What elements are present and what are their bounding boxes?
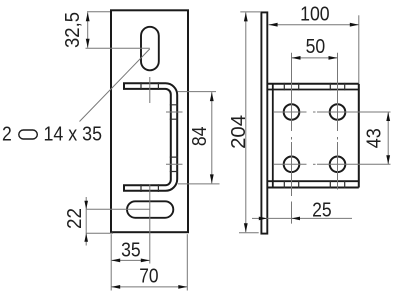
leader line to slot <box>80 49 150 122</box>
left view plate outline <box>111 10 188 232</box>
hole bottom-left <box>284 157 300 173</box>
hole bottom-right <box>330 157 346 173</box>
dim 22 extension lines <box>86 208 150 210</box>
hole centerline upper <box>166 111 183 113</box>
vertical slot 14x35 <box>141 27 159 71</box>
dim 204 extension lines <box>240 11 261 13</box>
svg-text:14 x 35: 14 x 35 <box>44 124 103 146</box>
dim 32,5 line <box>87 12 89 48</box>
dim 32,5 extension lines <box>87 11 110 13</box>
svg-text:50: 50 <box>306 36 326 58</box>
dim 22 line with outside arrows <box>85 209 87 233</box>
obround symbol <box>19 130 38 139</box>
C channel profile <box>124 83 177 191</box>
vertical centerline right hole column <box>337 53 339 190</box>
dim 25 line segments <box>252 217 267 219</box>
bend tangent line <box>272 84 274 188</box>
dim 43 line <box>387 112 389 164</box>
svg-text:25: 25 <box>312 199 332 221</box>
dim 70 extension lines <box>110 234 112 290</box>
dim 70 line <box>111 286 187 288</box>
dim 204 line <box>245 12 247 232</box>
hole edge ticks bottom band <box>284 180 344 188</box>
horizontal slot 14x35 <box>127 201 173 218</box>
horizontal centerline bottom hole row <box>274 163 391 165</box>
svg-text:43: 43 <box>364 128 386 148</box>
svg-text:70: 70 <box>139 266 158 288</box>
right view channel web outline <box>267 83 359 85</box>
hole edge ticks on channel web lower <box>170 157 178 171</box>
right view upright plate edge-on <box>261 12 267 233</box>
dim 25 outside arrows <box>259 217 268 221</box>
svg-text:204: 204 <box>228 115 250 149</box>
hole top-right <box>330 104 346 120</box>
dim 100 extension line <box>358 15 360 83</box>
svg-text:35: 35 <box>121 239 141 261</box>
svg-text:100: 100 <box>300 4 330 26</box>
slot centerline through bottom band down to 35-dim <box>149 184 151 263</box>
slot centerline through top band <box>149 77 151 103</box>
svg-text:84: 84 <box>189 127 211 147</box>
dim 35 line <box>111 259 150 261</box>
dim 100 line <box>269 24 359 26</box>
dim 84 line <box>211 92 213 183</box>
svg-text:22: 22 <box>64 208 86 229</box>
svg-text:32,5: 32,5 <box>62 12 84 48</box>
dim 84 extension lines <box>178 91 217 93</box>
slot edge ticks on bottom band <box>141 184 158 192</box>
svg-text:2: 2 <box>2 124 12 146</box>
hole centerline lower <box>166 163 183 165</box>
vertical centerline left hole column <box>291 53 293 224</box>
centerline dash gaps and dots <box>291 111 339 202</box>
horizontal centerline top hole row <box>274 111 391 113</box>
hole edge ticks on channel web upper <box>170 105 178 119</box>
slot edge ticks on top band <box>141 82 158 90</box>
hole top-left <box>284 104 300 120</box>
hole edge ticks top band <box>284 83 344 90</box>
dim 50 line <box>292 57 338 59</box>
